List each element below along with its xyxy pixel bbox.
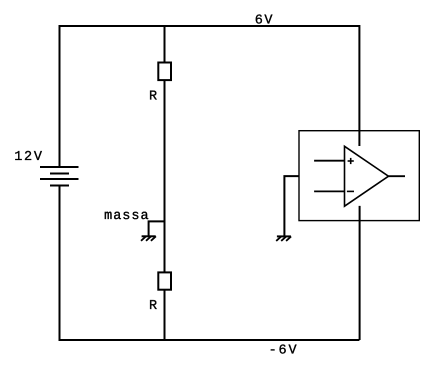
svg-text:12V: 12V <box>14 150 43 165</box>
svg-text:-6V: -6V <box>269 344 298 359</box>
svg-text:6V: 6V <box>255 14 274 29</box>
svg-text:R: R <box>149 90 157 105</box>
svg-text:massa: massa <box>104 209 149 224</box>
svg-text:R: R <box>149 299 157 314</box>
